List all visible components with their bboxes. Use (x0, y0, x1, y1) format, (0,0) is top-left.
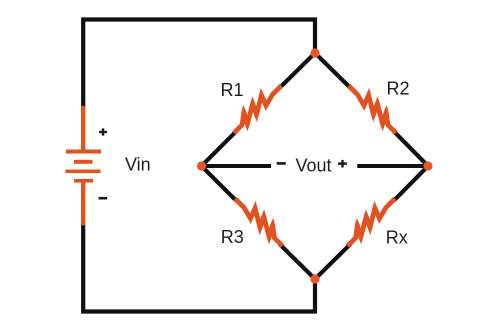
resistor Rx (346, 197, 397, 248)
Vout plus sign (338, 160, 347, 168)
battery stem bottom (81, 182, 85, 226)
battery plate short 1 (74, 160, 93, 164)
svg-text:R1: R1 (221, 80, 244, 100)
wire top node to R2 (315, 53, 350, 88)
battery Vin stem top (81, 106, 85, 151)
resistor R3 (233, 197, 284, 248)
svg-text:R2: R2 (387, 78, 410, 98)
node left (197, 161, 206, 170)
Vout minus sign (277, 162, 286, 165)
wire top loop from battery + to bridge top node (83, 20, 315, 109)
wire R2 to right node (394, 131, 428, 166)
battery minus sign (99, 197, 108, 200)
resistor R1 (232, 84, 283, 135)
battery plate long 2 (66, 170, 101, 174)
svg-text:Vin: Vin (125, 155, 151, 175)
wire R1 to top node (280, 53, 315, 88)
battery plus sign (99, 128, 107, 135)
wire Rx to right node (394, 166, 428, 201)
node bottom (310, 274, 319, 283)
node top (310, 48, 319, 57)
wire left node to R3 (202, 166, 237, 201)
wire bottom loop from battery - to bridge bottom node (83, 224, 315, 312)
battery plate long 1 (66, 150, 101, 154)
svg-text:Vout: Vout (296, 156, 332, 176)
svg-text:R3: R3 (221, 227, 244, 247)
wire Vout right stub (357, 164, 428, 168)
svg-text:Rx: Rx (386, 228, 408, 248)
wire left node to R1 (202, 131, 237, 166)
wire R3 to bottom node (280, 244, 315, 279)
resistor R2 (347, 84, 398, 135)
wire bottom node to Rx (315, 244, 350, 279)
wire Vout left stub (202, 164, 272, 168)
battery plate short 2 (74, 179, 93, 183)
node right (423, 161, 432, 170)
